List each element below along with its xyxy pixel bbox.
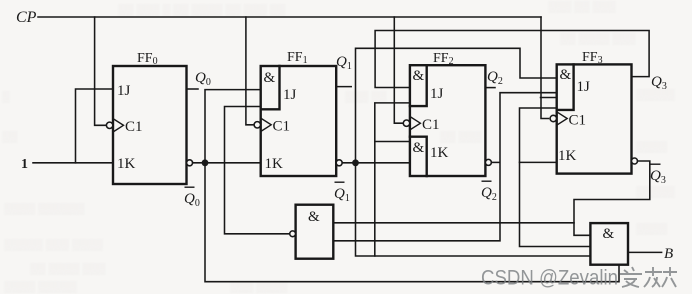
svg-text:C1: C1 [569, 113, 587, 129]
label 1 (constant input) [21, 157, 28, 172]
label & G1 [308, 209, 320, 225]
svg-text:▒▒▒▒ ▒▒▒▒▒: ▒▒▒▒ ▒▒▒▒▒ [4, 280, 77, 293]
label & FF2 K [413, 140, 425, 156]
watermark CJK strokes 爱灰灰 [620, 267, 677, 287]
pin label 1K FF2 [430, 145, 449, 161]
wire CP drop to FF1 clock [246, 17, 255, 125]
label Q3 [651, 74, 667, 92]
pin label 1J FF2 [430, 86, 444, 102]
svg-text:1K: 1K [265, 156, 284, 172]
label Q0-bar [184, 187, 200, 210]
svg-text:▒▒ ▒▒▒: ▒▒ ▒▒▒ [440, 130, 482, 143]
label & FF1 [264, 70, 276, 86]
svg-text:1J: 1J [283, 87, 297, 103]
wire Q1-bar up to rail2 feeding FF3 AND input1 [356, 48, 557, 163]
svg-text:▒▒▒ ▒▒ ▒▒▒: ▒▒▒ ▒▒ ▒▒▒ [548, 0, 616, 13]
inversion bubble G1 output [290, 231, 296, 237]
wire CP drop to FF2 clock [394, 17, 402, 123]
svg-text:▒: ▒ [2, 90, 10, 103]
inversion bubble FF0 Q-bar [187, 160, 193, 166]
svg-text:&: & [308, 209, 320, 225]
pin label 1J FF3 [577, 79, 591, 95]
svg-text:1K: 1K [430, 145, 449, 161]
wire Q0-bar up branch to FF1 AND input1 [205, 90, 261, 163]
pin label 1J FF1 [283, 87, 297, 103]
embedded AND box FF1 [261, 66, 280, 109]
svg-text:&: & [603, 226, 615, 242]
svg-text:B: B [664, 246, 673, 262]
wire net on x=519.5: FF3 edge line, FF3 1K, B-gate input2 [520, 108, 591, 247]
wire FF0 Qbar to FF1 1K [193, 162, 261, 164]
junction node Q0-bar [202, 159, 209, 166]
watermark CSDN [481, 266, 677, 290]
label Q3-bar [650, 164, 666, 187]
label Q2 [487, 69, 503, 87]
svg-text:1J: 1J [577, 79, 591, 95]
svg-text:▒▒ ▒▒▒ ▒ ▒▒ ▒▒▒▒ ▒▒ ▒▒▒ ▒▒: ▒▒ ▒▒▒ ▒ ▒▒ ▒▒▒▒ ▒▒ ▒▒▒ ▒▒ [118, 3, 286, 16]
label CP [16, 9, 37, 26]
clock bubble FF1 [254, 122, 260, 128]
label B [664, 246, 673, 262]
and-gate G1 (NAND feeding FF1 J) [296, 205, 334, 259]
wire Q2 net: right to FF3 AND input2 and down to G1 input2 [333, 93, 556, 241]
flip-flop FF1 [261, 66, 337, 176]
clock bubble FF3 [550, 115, 556, 121]
embedded AND box FF3 [557, 64, 574, 110]
svg-text:&: & [413, 140, 425, 156]
label FF1 [287, 50, 308, 66]
wire branch from rail up to FF2 J-AND input2 [375, 103, 410, 256]
label & G2 [603, 226, 615, 242]
svg-text:CSDN @Zevalin: CSDN @Zevalin [481, 266, 618, 290]
wire Q0-bar down branch to bottom rail [205, 163, 619, 282]
pin label 1K FF1 [265, 156, 284, 172]
svg-text:1: 1 [21, 157, 28, 172]
label & FF2 J [413, 68, 425, 84]
svg-text:C1: C1 [422, 117, 440, 133]
pin label C1 FF2 with triangle [410, 117, 421, 130]
svg-text:▒▒▒▒▒ ▒▒▒ ▒▒▒▒: ▒▒▒▒▒ ▒▒▒ ▒▒▒▒ [4, 238, 103, 251]
wire constant 1 to FF0 1K [33, 162, 113, 164]
svg-text:▒▒ ▒▒▒▒ ▒▒▒: ▒▒ ▒▒▒▒ ▒▒▒ [30, 262, 106, 275]
svg-text:&: & [560, 67, 572, 83]
svg-text:&: & [264, 70, 276, 86]
junction node Q1-bar [352, 159, 359, 166]
label Q0 [195, 70, 211, 88]
wire FF3 1K branch [520, 161, 557, 163]
wire FF1 Qbar to FF2 K-AND input2 [342, 162, 410, 164]
wire CP bus [38, 16, 541, 18]
pin label 1K FF0 [117, 156, 136, 172]
label FF3 [582, 50, 603, 66]
inversion bubble FF1 Q-bar [336, 160, 342, 166]
label Q1-bar [334, 182, 350, 205]
embedded AND box FF2 J [410, 65, 427, 106]
label FF0 [137, 51, 158, 67]
svg-text:1K: 1K [117, 156, 136, 172]
pin label C1 FF0 with dynamic triangle [113, 119, 124, 132]
wire Q3-bar branch to B-gate input1 [574, 223, 590, 236]
label & FF3 [560, 67, 572, 83]
wire branch up to FF0 1J [76, 89, 114, 163]
wire B output [628, 251, 662, 253]
wire branch T to FF2 K-AND input1 [375, 141, 410, 143]
svg-text:1J: 1J [430, 86, 444, 102]
wire G1 output to FF1 AND input2 [225, 107, 290, 234]
svg-text:1K: 1K [558, 148, 577, 164]
pin label C1 FF3 with triangle [557, 112, 568, 125]
svg-text:▒▒ ▒▒▒▒ ▒▒▒: ▒▒ ▒▒▒▒ ▒▒▒ [560, 32, 636, 45]
wire CP drop to FF0 clock [95, 17, 107, 125]
label FF2 [433, 51, 454, 67]
svg-text:▒▒▒▒: ▒▒▒▒ [636, 140, 667, 153]
svg-text:▒▒▒▒: ▒▒▒▒ [636, 222, 667, 235]
wire CP drop to FF3 clock [541, 17, 549, 119]
svg-text:CP: CP [16, 9, 37, 26]
svg-text:▒▒▒ ▒▒: ▒▒▒ ▒▒ [345, 90, 387, 103]
svg-text:&: & [413, 68, 425, 84]
flip-flop FF3 [557, 64, 632, 173]
wire Q2-bar stub [491, 161, 499, 163]
clock bubble FF2 [403, 120, 409, 126]
svg-text:▒▒▒▒ ▒▒▒▒▒▒: ▒▒▒▒ ▒▒▒▒▒▒ [4, 202, 85, 215]
wire Q2 output stub [485, 87, 495, 89]
wire Q3 output and loop back on rail1 to FF2 J-AND input1 [375, 31, 649, 88]
embedded AND box FF2 K [410, 137, 427, 176]
svg-text:1J: 1J [117, 83, 131, 99]
pin label C1 FF1 with triangle [261, 118, 272, 131]
flip-flop FF0 [113, 66, 187, 184]
label Q1 [336, 54, 352, 72]
wire stub clock branch to FF3 AND input [541, 97, 557, 99]
wire Q1-bar down to B-gate input rail [356, 163, 591, 256]
inversion bubble FF2 Q-bar [485, 159, 491, 165]
wire Q0 output stub [187, 88, 199, 90]
wire Q3-bar staircase to G1 input1 [333, 161, 650, 223]
pin label 1J FF0 [117, 83, 131, 99]
svg-text:▒▒: ▒▒ [2, 130, 18, 143]
svg-text:C1: C1 [273, 119, 291, 135]
wire Q1 output stub [336, 86, 351, 88]
svg-text:C1: C1 [125, 119, 143, 135]
and-gate G2 (output B) [590, 223, 628, 265]
clock bubble FF0 [106, 122, 112, 128]
flip-flop FF2 [410, 65, 486, 176]
pin label 1K FF3 [558, 148, 577, 164]
inversion bubble FF3 Q-bar [632, 158, 638, 164]
svg-text:▒▒▒▒▒: ▒▒▒▒▒ [636, 185, 675, 198]
label Q2-bar [481, 181, 497, 204]
